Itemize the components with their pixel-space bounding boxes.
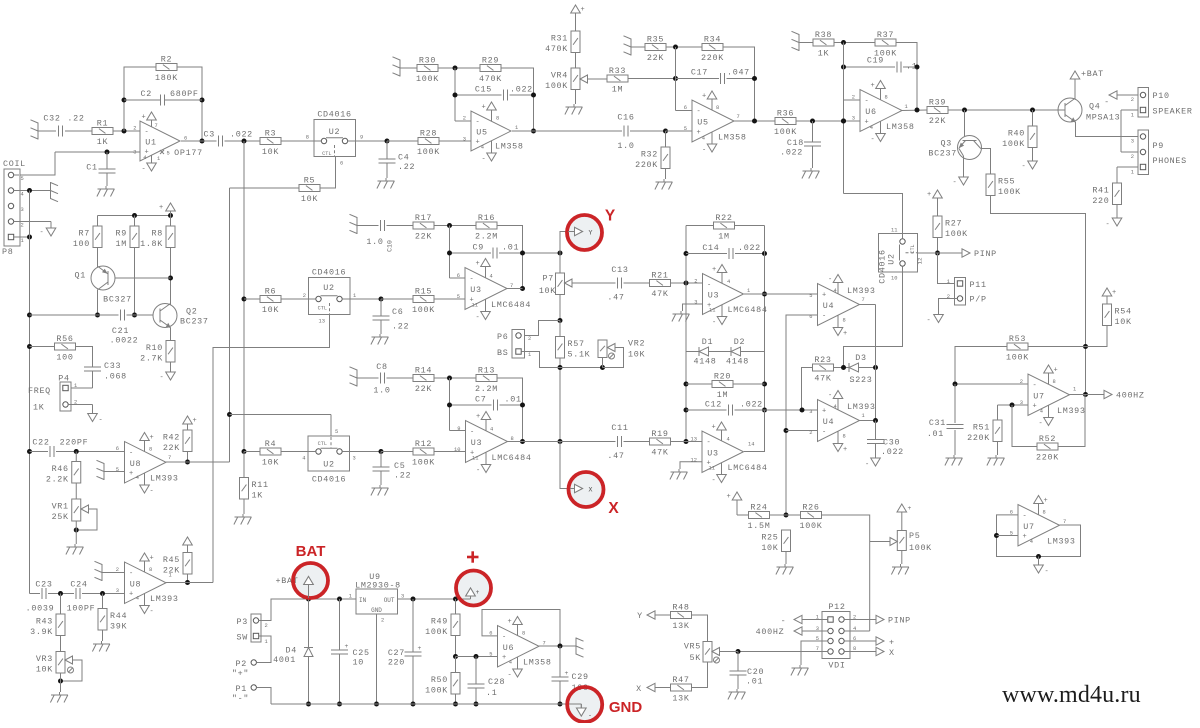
svg-text:+: + bbox=[822, 408, 827, 416]
svg-text:Y: Y bbox=[637, 611, 643, 621]
svg-text:.0022: .0022 bbox=[110, 336, 139, 346]
svg-text:2.7K: 2.7K bbox=[140, 353, 163, 363]
svg-text:+: + bbox=[697, 129, 702, 137]
svg-text:.1: .1 bbox=[906, 62, 917, 72]
svg-text:Y: Y bbox=[589, 230, 593, 237]
svg-text:+BAT: +BAT bbox=[1081, 69, 1104, 79]
svg-text:100K: 100K bbox=[1006, 353, 1029, 363]
svg-text:8: 8 bbox=[149, 447, 152, 453]
svg-text:LM393: LM393 bbox=[847, 402, 876, 412]
svg-text:1: 1 bbox=[528, 352, 531, 358]
svg-text:R10: R10 bbox=[146, 343, 163, 353]
svg-text:X: X bbox=[889, 648, 895, 658]
svg-text:1.0: 1.0 bbox=[617, 141, 634, 151]
svg-text:P9: P9 bbox=[1153, 141, 1164, 151]
svg-text:R54: R54 bbox=[1115, 306, 1132, 316]
svg-text:6: 6 bbox=[684, 105, 687, 111]
svg-text:10K: 10K bbox=[36, 664, 53, 674]
svg-text:2: 2 bbox=[809, 430, 812, 436]
svg-text:+: + bbox=[1033, 403, 1038, 411]
svg-text:R24: R24 bbox=[750, 503, 767, 513]
svg-text:5.1K: 5.1K bbox=[568, 349, 591, 359]
svg-text:+: + bbox=[418, 645, 422, 652]
svg-text:P7: P7 bbox=[543, 274, 554, 284]
svg-text:22K: 22K bbox=[647, 53, 664, 63]
svg-text:R6: R6 bbox=[265, 287, 276, 297]
svg-text:-: - bbox=[588, 712, 592, 719]
svg-text:4148: 4148 bbox=[726, 357, 749, 367]
svg-text:VDI: VDI bbox=[828, 661, 845, 671]
svg-text:"+": "+" bbox=[232, 669, 249, 679]
svg-text:+: + bbox=[1054, 367, 1059, 375]
svg-text:C22: C22 bbox=[32, 438, 49, 448]
svg-text:R15: R15 bbox=[415, 287, 432, 297]
svg-text:R29: R29 bbox=[482, 56, 499, 66]
svg-text:2: 2 bbox=[381, 618, 384, 624]
svg-text:R11: R11 bbox=[252, 480, 269, 490]
svg-text:CD4016: CD4016 bbox=[312, 475, 346, 485]
svg-text:CD4016: CD4016 bbox=[317, 110, 351, 120]
svg-text:3: 3 bbox=[21, 207, 24, 213]
svg-text:8: 8 bbox=[716, 105, 719, 111]
svg-text:CTL: CTL bbox=[910, 244, 916, 253]
svg-text:220K: 220K bbox=[635, 160, 658, 170]
svg-text:R13: R13 bbox=[478, 366, 495, 376]
svg-text:8: 8 bbox=[522, 631, 525, 637]
svg-text:1: 1 bbox=[74, 383, 77, 389]
svg-text:+: + bbox=[727, 493, 732, 501]
svg-text:680PF: 680PF bbox=[170, 89, 199, 99]
svg-text:R37: R37 bbox=[877, 30, 894, 40]
svg-text:.47: .47 bbox=[607, 451, 624, 461]
svg-text:R19: R19 bbox=[651, 429, 668, 439]
svg-text:4: 4 bbox=[481, 145, 484, 151]
svg-text:7: 7 bbox=[862, 297, 865, 303]
svg-text:.22: .22 bbox=[392, 322, 409, 332]
svg-text:U5: U5 bbox=[697, 118, 708, 128]
svg-text:U3: U3 bbox=[707, 448, 718, 458]
svg-text:-: - bbox=[828, 392, 833, 400]
svg-text:LM2930-8: LM2930-8 bbox=[355, 581, 401, 591]
svg-text:11: 11 bbox=[709, 466, 715, 472]
svg-text:+: + bbox=[476, 139, 481, 147]
svg-text:+: + bbox=[889, 638, 895, 648]
svg-text:P/P: P/P bbox=[970, 295, 987, 305]
svg-text:C16: C16 bbox=[617, 113, 634, 123]
svg-text:OP177: OP177 bbox=[174, 148, 203, 158]
svg-text:2: 2 bbox=[463, 116, 466, 122]
svg-text:5: 5 bbox=[116, 467, 119, 473]
svg-text:-: - bbox=[129, 570, 134, 578]
svg-text:-: - bbox=[129, 449, 134, 457]
svg-text:3: 3 bbox=[353, 456, 356, 462]
svg-text:C13: C13 bbox=[611, 265, 628, 275]
svg-text:1.0: 1.0 bbox=[366, 237, 383, 247]
svg-text:SPEAKER: SPEAKER bbox=[1153, 107, 1193, 117]
svg-text:R48: R48 bbox=[672, 603, 689, 613]
svg-text:+: + bbox=[150, 555, 155, 563]
svg-text:10K: 10K bbox=[262, 458, 279, 468]
svg-text:+: + bbox=[150, 434, 155, 442]
svg-text:D2: D2 bbox=[734, 337, 745, 347]
svg-text:11: 11 bbox=[891, 228, 897, 234]
svg-text:.0039: .0039 bbox=[26, 604, 55, 614]
svg-text:-: - bbox=[865, 461, 870, 469]
svg-text:R53: R53 bbox=[1009, 334, 1026, 344]
svg-text:-: - bbox=[150, 608, 155, 616]
svg-text:R42: R42 bbox=[163, 432, 180, 442]
svg-text:13: 13 bbox=[691, 437, 697, 443]
svg-text:R41: R41 bbox=[1092, 185, 1109, 195]
svg-text:8: 8 bbox=[1053, 379, 1056, 385]
svg-text:100K: 100K bbox=[1002, 139, 1025, 149]
svg-text:CTL: CTL bbox=[318, 306, 327, 312]
svg-text:470K: 470K bbox=[479, 74, 502, 84]
svg-text:U8: U8 bbox=[130, 579, 141, 589]
svg-text:5: 5 bbox=[167, 151, 170, 157]
svg-text:+: + bbox=[508, 618, 513, 626]
svg-text:PINP: PINP bbox=[974, 249, 997, 259]
svg-text:Y: Y bbox=[605, 208, 616, 225]
svg-text:+: + bbox=[712, 266, 717, 274]
svg-text:R31: R31 bbox=[551, 33, 568, 43]
svg-text:-: - bbox=[1104, 98, 1110, 107]
svg-text:-: - bbox=[470, 429, 475, 437]
svg-text:R23: R23 bbox=[814, 355, 831, 365]
svg-text:LM358: LM358 bbox=[718, 133, 747, 143]
svg-text:R39: R39 bbox=[929, 98, 946, 108]
svg-text:-: - bbox=[927, 317, 932, 325]
svg-text:2.2M: 2.2M bbox=[475, 384, 498, 394]
svg-text:R36: R36 bbox=[777, 109, 794, 119]
svg-text:4148: 4148 bbox=[694, 357, 717, 367]
svg-text:10K: 10K bbox=[301, 194, 318, 204]
svg-text:3: 3 bbox=[1131, 139, 1134, 145]
svg-text:U1: U1 bbox=[145, 138, 156, 148]
svg-text:P10: P10 bbox=[1153, 91, 1170, 101]
svg-text:C23: C23 bbox=[35, 580, 52, 590]
svg-text:"-": "-" bbox=[232, 694, 249, 704]
svg-text:8: 8 bbox=[496, 116, 499, 122]
svg-text:.01: .01 bbox=[927, 429, 944, 439]
svg-text:PHONES: PHONES bbox=[1153, 156, 1187, 166]
svg-text:-: - bbox=[822, 313, 827, 321]
svg-text:P11: P11 bbox=[970, 280, 987, 290]
svg-text:P2: P2 bbox=[236, 659, 247, 669]
svg-text:10K: 10K bbox=[761, 543, 778, 553]
svg-text:VR4: VR4 bbox=[551, 70, 568, 80]
svg-text:11: 11 bbox=[709, 308, 715, 314]
svg-text:220: 220 bbox=[388, 658, 405, 668]
svg-text:2.2M: 2.2M bbox=[475, 232, 498, 242]
svg-text:C29: C29 bbox=[572, 672, 589, 682]
svg-text:C8: C8 bbox=[376, 362, 387, 372]
svg-text:13K: 13K bbox=[672, 694, 689, 704]
svg-text:+: + bbox=[822, 292, 827, 300]
svg-text:U3: U3 bbox=[470, 285, 481, 295]
svg-text:1: 1 bbox=[947, 279, 950, 285]
svg-text:220: 220 bbox=[1092, 196, 1109, 206]
svg-text:+: + bbox=[345, 643, 349, 650]
svg-text:400HZ: 400HZ bbox=[756, 627, 785, 637]
svg-text:1M: 1M bbox=[612, 85, 623, 95]
svg-text:+: + bbox=[927, 191, 932, 199]
svg-text:C4: C4 bbox=[398, 153, 409, 163]
svg-text:-: - bbox=[1033, 382, 1038, 390]
svg-text:4: 4 bbox=[136, 475, 139, 481]
svg-text:P3: P3 bbox=[237, 617, 248, 627]
svg-text:+: + bbox=[843, 330, 848, 338]
svg-text:D4: D4 bbox=[286, 646, 297, 656]
svg-text:10K: 10K bbox=[1115, 317, 1132, 327]
svg-text:100K: 100K bbox=[412, 458, 435, 468]
svg-text:2: 2 bbox=[133, 126, 136, 132]
svg-text:R1: R1 bbox=[97, 119, 108, 129]
svg-text:+: + bbox=[129, 470, 134, 478]
svg-text:C7: C7 bbox=[475, 395, 486, 405]
svg-text:-: - bbox=[822, 429, 827, 437]
svg-text:100K: 100K bbox=[800, 521, 823, 531]
svg-text:LM358: LM358 bbox=[495, 142, 524, 152]
svg-text:2: 2 bbox=[265, 623, 268, 629]
svg-text:2: 2 bbox=[21, 223, 24, 229]
svg-text:+: + bbox=[865, 119, 870, 127]
svg-text:1K: 1K bbox=[818, 49, 830, 59]
svg-text:LMC6484: LMC6484 bbox=[491, 300, 531, 310]
svg-text:39K: 39K bbox=[110, 621, 127, 631]
svg-text:100: 100 bbox=[73, 239, 90, 249]
svg-text:U3: U3 bbox=[471, 438, 482, 448]
svg-text:.22: .22 bbox=[67, 114, 84, 124]
svg-text:22K: 22K bbox=[415, 232, 432, 242]
svg-text:CTL: CTL bbox=[318, 441, 327, 447]
svg-text:-: - bbox=[150, 488, 155, 496]
svg-text:3.9K: 3.9K bbox=[30, 627, 53, 637]
svg-text:.22: .22 bbox=[398, 162, 415, 172]
svg-text:R2: R2 bbox=[161, 55, 172, 65]
svg-text:PINP: PINP bbox=[888, 616, 911, 626]
svg-text:BC327: BC327 bbox=[103, 295, 132, 305]
svg-text:U6: U6 bbox=[503, 643, 514, 653]
svg-text:4: 4 bbox=[1040, 409, 1043, 415]
svg-text:100K: 100K bbox=[425, 685, 448, 695]
svg-text:5: 5 bbox=[684, 126, 687, 132]
svg-text:R44: R44 bbox=[110, 611, 127, 621]
svg-text:R5: R5 bbox=[304, 176, 315, 186]
svg-text:2.2K: 2.2K bbox=[46, 474, 69, 484]
svg-text:U6: U6 bbox=[865, 107, 876, 117]
svg-text:1.8K: 1.8K bbox=[140, 239, 163, 249]
svg-text:2: 2 bbox=[528, 336, 531, 342]
svg-text:9: 9 bbox=[360, 135, 363, 141]
svg-text:8: 8 bbox=[843, 434, 846, 440]
svg-text:LM393: LM393 bbox=[847, 286, 876, 296]
svg-text:R9: R9 bbox=[116, 228, 127, 238]
svg-text:1.5M: 1.5M bbox=[748, 521, 771, 531]
svg-text:C33: C33 bbox=[104, 361, 121, 371]
svg-text:C10: C10 bbox=[387, 240, 394, 252]
svg-text:Q2: Q2 bbox=[186, 307, 197, 317]
svg-text:12: 12 bbox=[917, 257, 924, 264]
svg-text:180K: 180K bbox=[155, 73, 178, 83]
svg-text:1.0: 1.0 bbox=[373, 386, 390, 396]
svg-text:.22: .22 bbox=[394, 471, 411, 481]
svg-text:1: 1 bbox=[1073, 387, 1076, 393]
svg-text:1M: 1M bbox=[116, 239, 127, 249]
svg-text:U4: U4 bbox=[823, 417, 834, 427]
svg-text:1: 1 bbox=[157, 156, 160, 162]
svg-text:1: 1 bbox=[21, 238, 24, 244]
svg-text:400HZ: 400HZ bbox=[1116, 391, 1145, 401]
svg-text:R3: R3 bbox=[265, 129, 276, 139]
svg-text:C3: C3 bbox=[204, 130, 215, 140]
svg-text:25K: 25K bbox=[52, 512, 69, 522]
svg-text:100K: 100K bbox=[945, 229, 968, 239]
svg-text:220K: 220K bbox=[1036, 453, 1059, 463]
svg-text:+: + bbox=[193, 417, 198, 425]
svg-text:.068: .068 bbox=[104, 372, 127, 382]
svg-text:+: + bbox=[908, 505, 912, 512]
svg-text:4: 4 bbox=[702, 136, 705, 142]
svg-text:S223: S223 bbox=[850, 375, 873, 385]
svg-text:8: 8 bbox=[885, 95, 888, 101]
svg-text:-: - bbox=[142, 166, 147, 174]
svg-text:-: - bbox=[145, 129, 150, 137]
svg-text:1: 1 bbox=[349, 594, 352, 600]
svg-text:1K: 1K bbox=[97, 137, 109, 147]
svg-text:U3: U3 bbox=[708, 291, 719, 301]
svg-text:220PF: 220PF bbox=[60, 438, 89, 448]
svg-text:.022: .022 bbox=[510, 85, 533, 95]
svg-text:U2: U2 bbox=[329, 127, 340, 137]
svg-text:C20: C20 bbox=[747, 667, 764, 677]
svg-text:2: 2 bbox=[694, 279, 697, 285]
svg-text:+: + bbox=[476, 260, 481, 268]
svg-text:2: 2 bbox=[1131, 97, 1134, 103]
svg-text:+: + bbox=[702, 93, 707, 101]
svg-text:-: - bbox=[1023, 512, 1028, 520]
svg-text:C9: C9 bbox=[473, 243, 484, 253]
svg-text:1: 1 bbox=[1131, 113, 1134, 119]
svg-text:9: 9 bbox=[457, 426, 460, 432]
svg-text:100K: 100K bbox=[998, 187, 1021, 197]
svg-text:1: 1 bbox=[265, 639, 268, 645]
svg-text:.1: .1 bbox=[486, 688, 497, 698]
svg-text:4: 4 bbox=[834, 288, 837, 294]
svg-text:.022: .022 bbox=[780, 148, 803, 158]
svg-text:-: - bbox=[502, 633, 507, 641]
svg-text:LMC6484: LMC6484 bbox=[728, 463, 768, 473]
svg-text:C17: C17 bbox=[691, 68, 708, 78]
svg-text:R57: R57 bbox=[568, 339, 585, 349]
svg-text:R49: R49 bbox=[431, 616, 448, 626]
svg-text:U2: U2 bbox=[323, 460, 334, 470]
svg-text:3: 3 bbox=[463, 137, 466, 143]
svg-text:-: - bbox=[707, 439, 712, 447]
svg-text:5: 5 bbox=[489, 652, 492, 658]
svg-text:2: 2 bbox=[852, 95, 855, 101]
svg-text:8: 8 bbox=[1043, 510, 1046, 516]
svg-text:+: + bbox=[1023, 533, 1028, 541]
svg-text:1K: 1K bbox=[252, 490, 264, 500]
svg-text:-: - bbox=[476, 314, 481, 322]
svg-text:R56: R56 bbox=[56, 334, 73, 344]
svg-text:10: 10 bbox=[891, 276, 897, 282]
svg-text:100K: 100K bbox=[909, 543, 932, 553]
svg-text:P5: P5 bbox=[909, 531, 920, 541]
svg-text:P12: P12 bbox=[828, 602, 845, 612]
svg-text:.47: .47 bbox=[607, 293, 624, 303]
svg-text:+: + bbox=[565, 670, 569, 677]
svg-text:C12: C12 bbox=[705, 400, 722, 410]
svg-text:OUT: OUT bbox=[384, 597, 395, 604]
svg-text:D1: D1 bbox=[702, 337, 713, 347]
svg-text:R8: R8 bbox=[152, 228, 163, 238]
svg-text:+: + bbox=[159, 204, 164, 212]
svg-text:LMC6484: LMC6484 bbox=[492, 453, 532, 463]
svg-text:U7: U7 bbox=[1033, 391, 1044, 401]
svg-text:LM393: LM393 bbox=[1057, 406, 1086, 416]
svg-text:-: - bbox=[470, 276, 475, 284]
svg-text:CD4016: CD4016 bbox=[312, 268, 346, 278]
svg-text:4: 4 bbox=[21, 192, 24, 198]
svg-text:R34: R34 bbox=[704, 35, 721, 45]
svg-text:-: - bbox=[1022, 163, 1027, 171]
svg-text:2: 2 bbox=[1020, 379, 1023, 385]
svg-text:LMC6484: LMC6484 bbox=[728, 305, 768, 315]
svg-text:.047: .047 bbox=[727, 68, 750, 78]
svg-text:Q4: Q4 bbox=[1089, 102, 1100, 112]
svg-text:100K: 100K bbox=[412, 305, 435, 315]
svg-text:U2: U2 bbox=[887, 253, 897, 264]
svg-text:2: 2 bbox=[303, 293, 306, 299]
svg-text:X: X bbox=[608, 500, 619, 517]
svg-text:+: + bbox=[843, 446, 848, 454]
svg-text:R45: R45 bbox=[163, 555, 180, 565]
svg-text:-: - bbox=[476, 467, 481, 475]
svg-text:R50: R50 bbox=[431, 675, 448, 685]
svg-text:11: 11 bbox=[472, 456, 478, 462]
svg-text:6: 6 bbox=[116, 446, 119, 452]
svg-text:C30: C30 bbox=[883, 438, 900, 448]
svg-text:U2: U2 bbox=[323, 283, 334, 293]
svg-text:-: - bbox=[476, 119, 481, 127]
svg-text:R26: R26 bbox=[802, 503, 819, 513]
svg-text:2: 2 bbox=[947, 294, 950, 300]
svg-text:4: 4 bbox=[870, 125, 873, 131]
svg-text:10K: 10K bbox=[539, 286, 556, 296]
svg-text:BS: BS bbox=[497, 348, 508, 358]
svg-text:R40: R40 bbox=[1008, 128, 1025, 138]
svg-text:COIL: COIL bbox=[3, 159, 26, 169]
svg-text:3: 3 bbox=[116, 588, 119, 594]
svg-text:5: 5 bbox=[21, 176, 24, 182]
svg-text:R16: R16 bbox=[478, 213, 495, 223]
svg-text:C28: C28 bbox=[488, 677, 505, 687]
svg-text:10K: 10K bbox=[262, 147, 279, 157]
svg-text:C14: C14 bbox=[702, 243, 719, 253]
svg-text:IN: IN bbox=[359, 597, 367, 604]
svg-text:+: + bbox=[1112, 289, 1117, 297]
svg-text:C6: C6 bbox=[392, 307, 403, 317]
svg-text:.01: .01 bbox=[505, 395, 522, 405]
svg-text:1K: 1K bbox=[33, 403, 45, 413]
svg-text:5: 5 bbox=[335, 429, 338, 435]
svg-text:.01: .01 bbox=[502, 243, 519, 253]
svg-text:U8: U8 bbox=[130, 459, 141, 469]
svg-text:R4: R4 bbox=[265, 439, 276, 449]
svg-text:+: + bbox=[502, 654, 507, 662]
